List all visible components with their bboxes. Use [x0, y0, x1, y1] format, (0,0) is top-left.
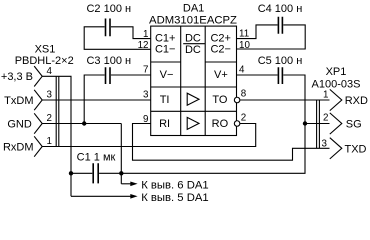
capacitor C1 plates	[93, 163, 98, 183]
wire C5 right down to SG	[283, 75, 305, 124]
svg-text:C2 100 н: C2 100 н	[86, 3, 131, 15]
wire RI pin 9 to TXD line	[133, 124, 330, 161]
svg-text:12: 12	[138, 40, 149, 51]
buffer triangle transmit	[187, 93, 199, 105]
svg-text:C4 100 н: C4 100 н	[258, 3, 303, 15]
svg-text:C2−: C2−	[210, 44, 231, 56]
pin 10 number	[239, 40, 250, 51]
wire C2 left to pin 12	[84, 27, 151, 50]
IC cell RI label	[159, 118, 170, 130]
IC cell V- label	[160, 69, 174, 81]
connector XP1 mating double line	[317, 100, 320, 148]
IC cell C2- label	[210, 44, 231, 56]
pin 4 number	[239, 64, 245, 75]
svg-text:RXD: RXD	[345, 95, 368, 107]
svg-text:RI: RI	[159, 118, 170, 130]
svg-text:SG: SG	[346, 119, 362, 131]
IC cell RO label	[212, 118, 229, 130]
svg-text:DC: DC	[185, 44, 201, 56]
IC DA1 reference label	[183, 3, 204, 15]
svg-text:RO: RO	[212, 118, 229, 130]
svg-text:4: 4	[239, 64, 245, 75]
XS1 pin 1 chevron	[34, 136, 42, 156]
net label TXD	[345, 143, 367, 155]
svg-text:К выв. 6 DA1: К выв. 6 DA1	[141, 179, 209, 191]
pin 2 number	[241, 113, 246, 124]
svg-text:2: 2	[323, 113, 328, 124]
svg-text:1: 1	[143, 29, 148, 40]
junction node +3.3V-C1	[69, 171, 73, 175]
svg-text:XS1: XS1	[35, 44, 56, 56]
buffer triangle receive	[187, 117, 199, 129]
svg-text:C1−: C1−	[155, 44, 176, 56]
inverter output circle RO	[234, 121, 240, 127]
pin 3 number	[143, 90, 149, 101]
svg-text:4: 4	[47, 66, 53, 77]
IC DA1 body outline	[151, 26, 237, 135]
capacitor C4 label	[258, 3, 303, 15]
connector XS1 mating double line	[56, 76, 59, 146]
XS1 pin 1 number	[47, 136, 52, 147]
junction node SG-C5	[303, 121, 307, 125]
IC cell V+ label	[214, 69, 228, 81]
net label GND	[7, 119, 32, 131]
svg-text:2: 2	[241, 113, 246, 124]
wire GND from XS1 pin2	[42, 123, 121, 125]
XP1 pin 1 number	[323, 89, 328, 100]
XS1 pin 4 chevron	[34, 66, 42, 86]
svg-text:GND: GND	[7, 119, 32, 131]
svg-text:TXD: TXD	[345, 143, 367, 155]
IC DC/DC converter label	[183, 33, 205, 56]
svg-text:TO: TO	[212, 94, 228, 106]
wire RxDM from XS1 pin1 to RO return	[42, 124, 256, 147]
arrow to pin 6 DA1	[121, 179, 208, 191]
IC cell TI label	[160, 94, 170, 106]
capacitor C5 label	[258, 55, 303, 67]
IC DA1 column dividers	[181, 26, 206, 135]
wire C3 right to pin 7	[111, 74, 151, 76]
XS1 pin 3 number	[47, 90, 53, 101]
net label SG	[346, 119, 362, 131]
junction node GND-C1	[119, 171, 123, 175]
svg-text:PBDHL-2×2: PBDHL-2×2	[15, 55, 74, 67]
arrow to pin 5 DA1	[71, 192, 209, 204]
XP1 pin 3 chevron	[330, 138, 342, 159]
svg-text:11: 11	[239, 28, 249, 39]
wire GND vertical B down to C1 right	[120, 124, 122, 184]
svg-text:TxDM: TxDM	[4, 95, 33, 107]
svg-text:V+: V+	[214, 69, 228, 81]
wire pin 4 V+ to C5	[237, 74, 278, 76]
IC cell TO label	[212, 94, 228, 106]
connector XS1 label	[15, 44, 74, 68]
XP1 pin 1 chevron	[330, 89, 342, 110]
pin 12 number	[138, 40, 149, 51]
svg-text:RxDM: RxDM	[3, 142, 34, 154]
wire SG from C5 junction to XP1 pin 2	[305, 123, 330, 125]
svg-text:A100-03S: A100-03S	[312, 79, 361, 91]
pin 11 number	[239, 28, 249, 39]
svg-text:3: 3	[47, 90, 53, 101]
capacitor C5 plates	[278, 67, 282, 84]
XS1 pin 2 number	[47, 113, 52, 124]
wire GND lower run under IC	[71, 124, 305, 174]
svg-text:C3 100 н: C3 100 н	[86, 55, 131, 67]
svg-text:TI: TI	[160, 94, 170, 106]
svg-text:ADM3101EACPZ: ADM3101EACPZ	[149, 15, 237, 27]
svg-text:C5 100 н: C5 100 н	[258, 55, 303, 67]
net label RxDM	[3, 142, 34, 154]
svg-text:1: 1	[323, 89, 328, 100]
pin 7 number	[143, 64, 148, 75]
wire C2 right to pin 1	[111, 27, 151, 39]
IC cell C2+ label	[210, 33, 231, 45]
net label TxDM	[4, 95, 33, 107]
svg-text:7: 7	[143, 64, 148, 75]
connector XP1 label	[312, 66, 361, 90]
capacitor C3 plates	[106, 67, 111, 84]
XP1 pin 3 number	[322, 138, 328, 149]
svg-text:3: 3	[143, 90, 149, 101]
IC DA1 part number	[149, 15, 237, 27]
wire C3 left down to GND	[84, 75, 104, 124]
pin 9 number	[143, 114, 148, 125]
capacitor C3 label	[86, 55, 131, 67]
svg-text:К выв. 5 DA1: К выв. 5 DA1	[141, 192, 209, 204]
IC DA1 row dividers	[151, 62, 237, 111]
svg-text:+3,3 В: +3,3 В	[1, 71, 33, 83]
wire TxDM to TI pin 3	[42, 99, 151, 101]
XS1 pin 2 chevron	[34, 113, 42, 133]
wire pin 11 to C4	[237, 25, 278, 39]
XP1 pin 2 number	[323, 113, 328, 124]
svg-text:3: 3	[322, 138, 328, 149]
IC cell C1+ label	[155, 33, 176, 45]
capacitor C2 label	[86, 3, 131, 15]
svg-text:2: 2	[47, 113, 52, 124]
IC cell C1- label	[155, 44, 176, 56]
junction node GND-C3	[82, 121, 86, 125]
capacitor C4 plates	[278, 17, 282, 34]
capacitor C1 label	[77, 152, 116, 164]
svg-text:DA1: DA1	[183, 3, 204, 15]
svg-text:XP1: XP1	[326, 66, 347, 78]
net label RXD	[345, 95, 368, 107]
svg-text:8: 8	[241, 88, 247, 99]
net label +3,3 V	[1, 71, 33, 83]
svg-text:C1 1 мк: C1 1 мк	[77, 152, 116, 164]
wire +3.3V from XS1 pin4 down to C1 left	[42, 76, 71, 196]
capacitor C2 plates	[106, 19, 111, 37]
wire C4 right to pin 10	[237, 25, 306, 49]
svg-text:V−: V−	[160, 69, 174, 81]
svg-text:1: 1	[47, 136, 52, 147]
XS1 pin 4 number	[47, 66, 53, 77]
pin 1 number	[143, 29, 148, 40]
pin 8 number	[241, 88, 247, 99]
wire TO to XP1 RXD	[240, 99, 330, 101]
XS1 pin 3 chevron	[34, 90, 42, 110]
inverter output circle TO	[234, 97, 240, 103]
XP1 pin 2 chevron	[330, 113, 342, 134]
